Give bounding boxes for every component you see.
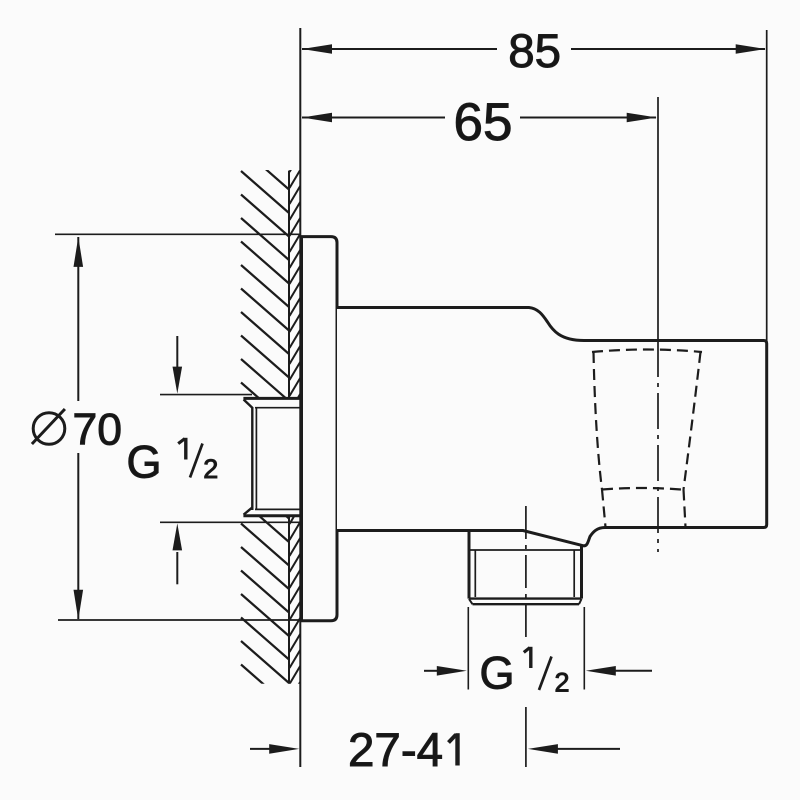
inlet thread chamfer bottom	[244, 507, 253, 514]
inlet thread dim arrow lower	[176, 552, 178, 584]
holder cup hidden bottom rim	[602, 488, 681, 490]
holder centerline dash-dot	[657, 341, 659, 552]
outlet thread root right	[573, 550, 575, 597]
outlet dim line right	[615, 670, 652, 672]
extension line dia70 top	[55, 233, 301, 235]
extension line 85 right	[766, 30, 768, 341]
svg-text:27-4: 27-4	[348, 724, 443, 777]
outlet thread chamfer right	[579, 599, 582, 604]
wall face line	[299, 28, 301, 767]
holder cup hidden top rim	[592, 350, 702, 353]
dim line dia70 vertical	[77, 237, 79, 401]
svg-text:2: 2	[554, 668, 569, 698]
label dia70 circle	[33, 413, 65, 445]
outlet thread right outer edge	[580, 545, 583, 599]
inlet thread dim arrow upper	[176, 336, 178, 368]
outlet dim line left	[424, 670, 438, 672]
dim 27-41 left	[250, 748, 271, 750]
wall finish layer boundary line	[288, 171, 290, 399]
inlet thread root bottom	[255, 508, 301, 510]
arrow 65 right	[627, 113, 657, 123]
outlet centerline dash-dot	[525, 506, 527, 637]
outlet ext line right	[583, 607, 585, 690]
inlet ext line top	[160, 394, 252, 396]
svg-text:65: 65	[454, 93, 513, 152]
inlet thread root top	[255, 407, 301, 409]
wall hatch wide band	[241, 124, 300, 707]
holder cup hidden left side	[594, 352, 603, 490]
outlet thread chamfer left	[469, 599, 473, 604]
holder cup hidden right lower	[684, 490, 686, 528]
outlet thread left outer edge	[468, 531, 471, 599]
inlet thread end face inner	[255, 409, 257, 510]
outlet ext line left	[467, 607, 469, 690]
arrow 85 right	[736, 44, 766, 54]
escutcheon flange plate	[302, 237, 338, 621]
outlet thread bottom edge	[469, 597, 582, 599]
inlet ext line bottom	[160, 521, 301, 523]
dim 27-41 right	[557, 748, 620, 750]
arrow 85 left	[302, 44, 332, 54]
inlet thread G1/2 crest top	[243, 397, 301, 400]
arrow dia70 up	[74, 237, 84, 267]
extension line dia70 bottom	[58, 619, 301, 621]
wall hatch narrow band (finish layer)	[290, 154, 301, 700]
inlet thread crest bottom	[243, 514, 301, 517]
arrow dia70 down	[74, 590, 84, 620]
svg-text:70: 70	[73, 405, 123, 454]
label dia70 slash	[32, 409, 65, 444]
svg-text:85: 85	[508, 25, 561, 78]
holder cup hidden left lower	[602, 490, 606, 528]
elbow body outline	[337, 308, 767, 546]
extension line 65 / holder centerline solid	[657, 97, 659, 341]
svg-text:G: G	[127, 437, 162, 488]
dim line 85	[302, 48, 497, 50]
holder cup hidden right side	[684, 352, 701, 490]
outlet thread bottom face	[473, 603, 580, 605]
svg-text:2: 2	[203, 454, 218, 484]
svg-text:G: G	[480, 648, 515, 699]
dim line 65	[302, 117, 445, 119]
inlet thread end face	[251, 407, 253, 510]
inlet thread chamfer top	[244, 400, 253, 408]
outlet thread root top	[470, 549, 581, 551]
arrow 65 left	[302, 113, 332, 123]
outlet thread root left	[474, 550, 476, 597]
